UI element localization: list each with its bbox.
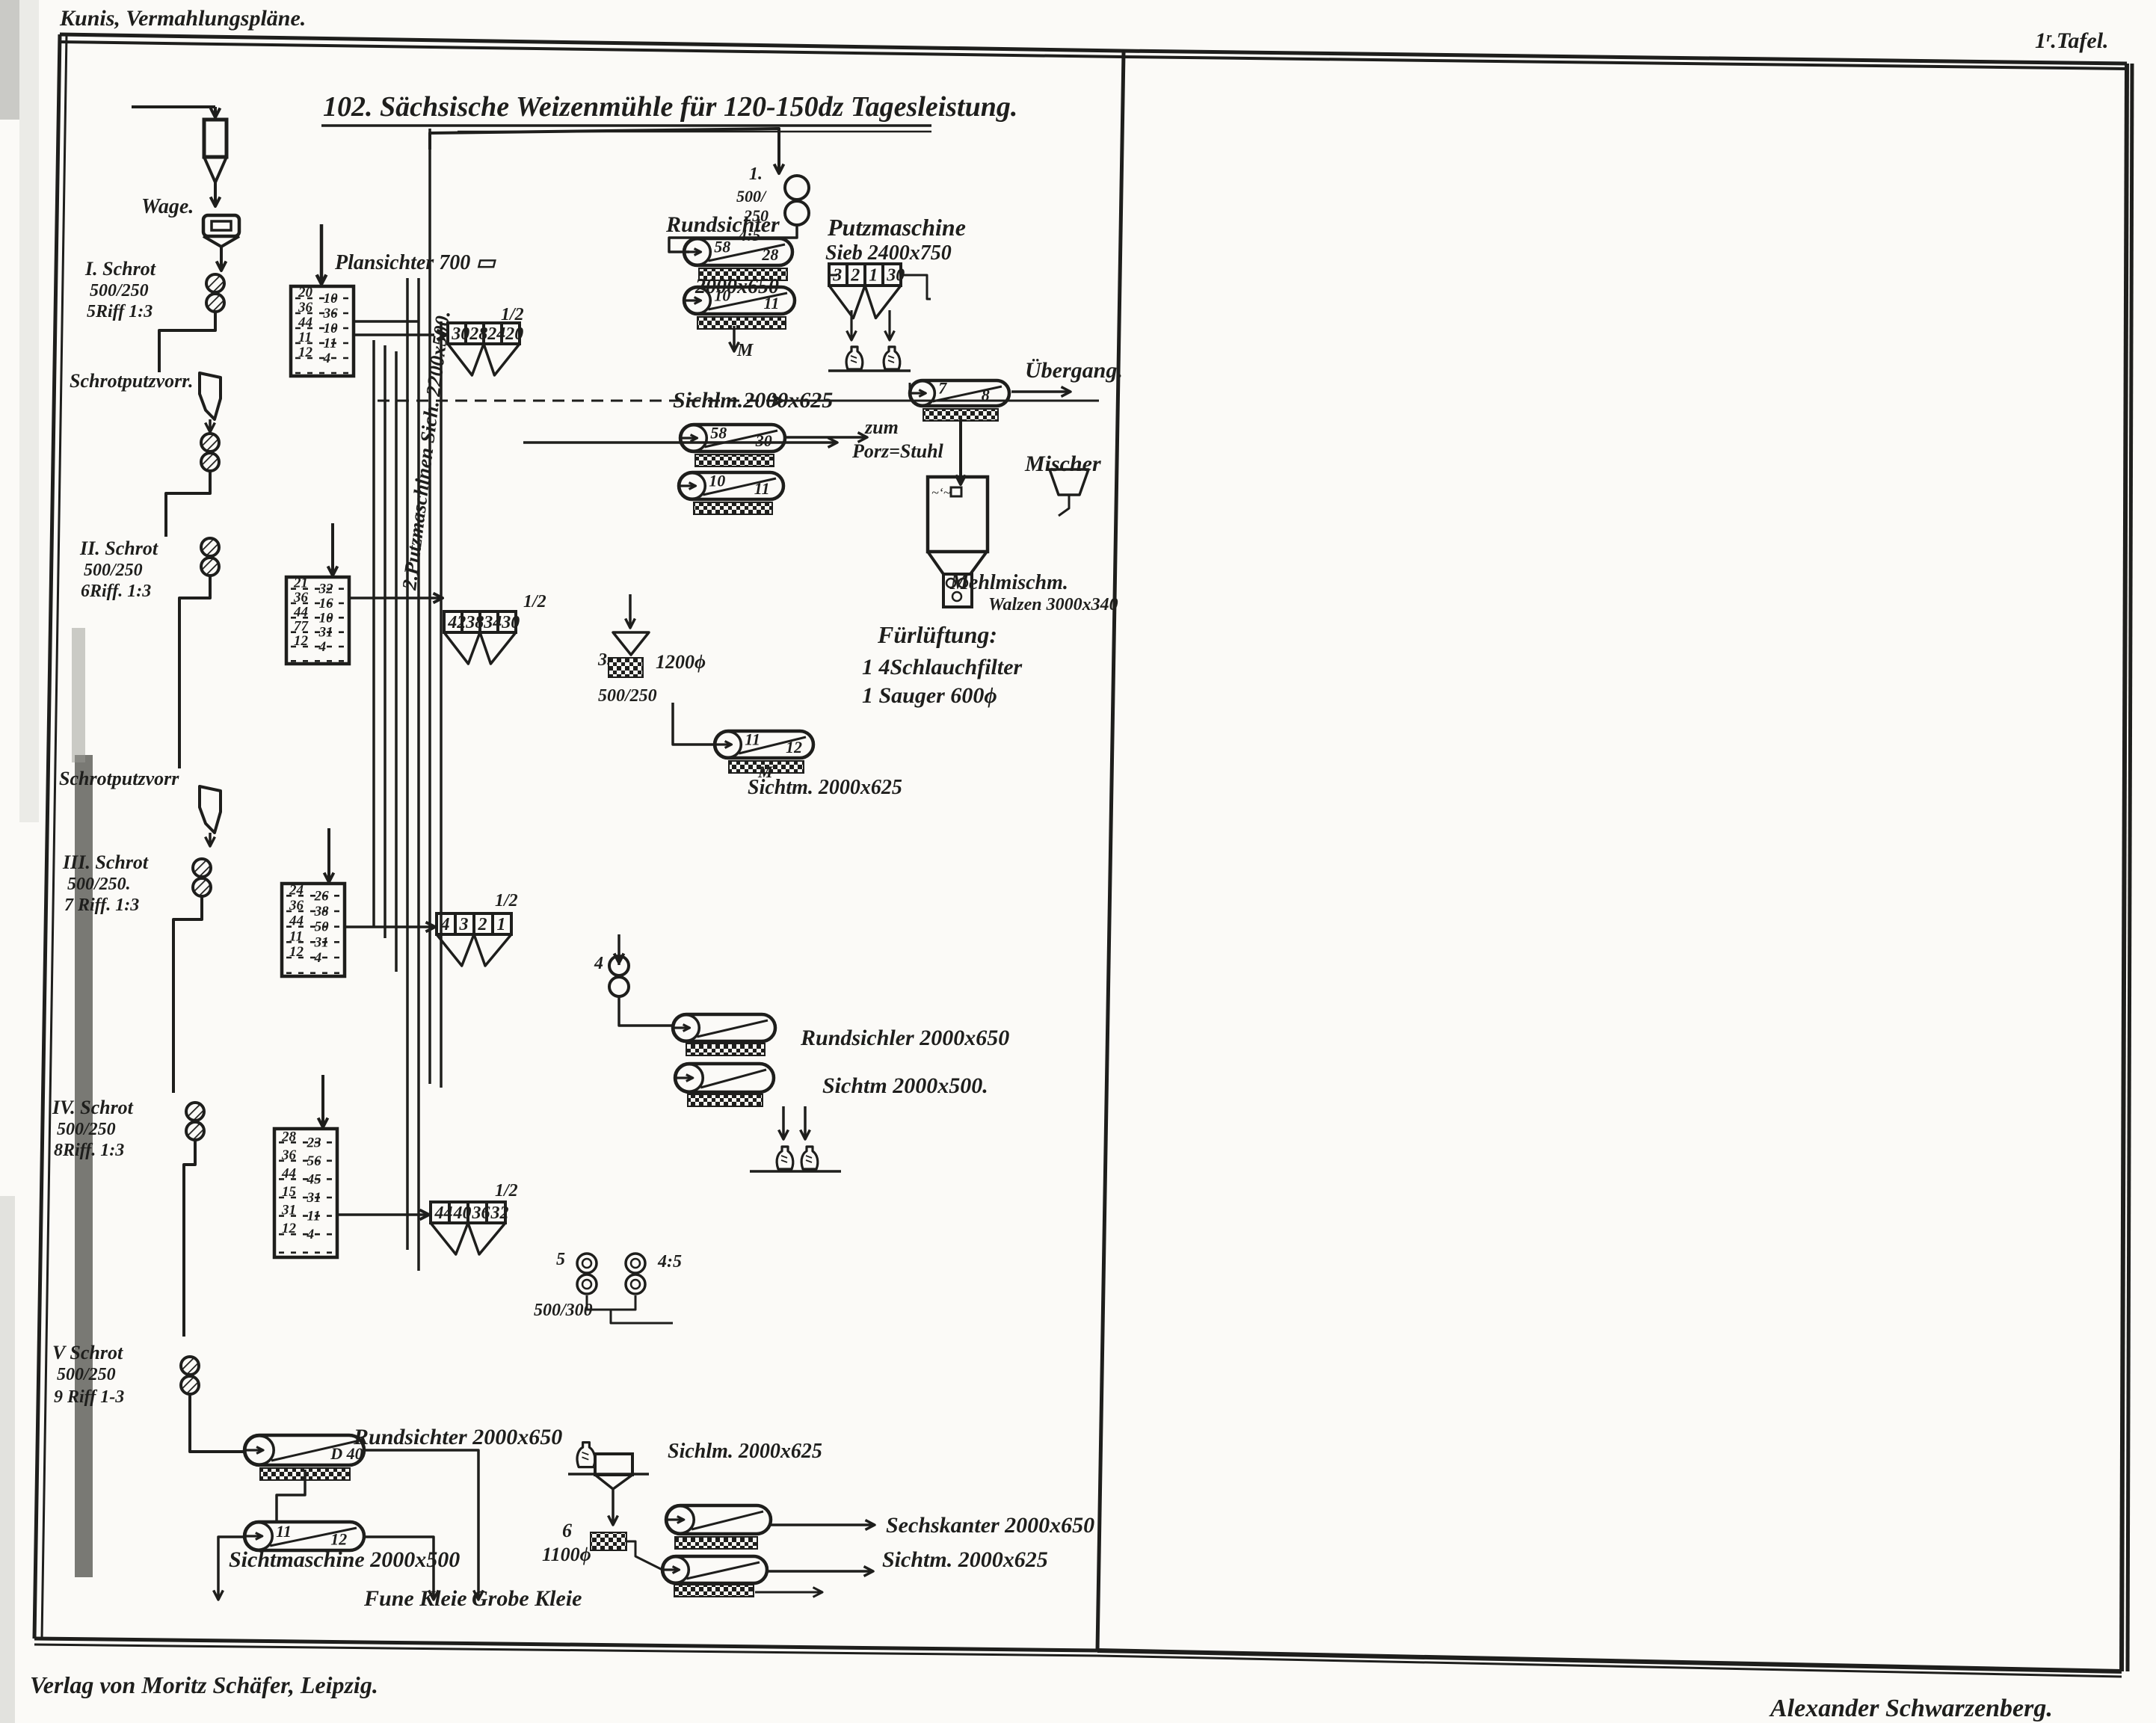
svg-text:Sichtm. 2000x625: Sichtm. 2000x625 [882,1547,1048,1572]
svg-text:12: 12 [786,738,802,756]
svg-text:10: 10 [709,472,725,490]
svg-text:Grobe Kleie: Grobe Kleie [472,1586,582,1611]
svg-text:1/2: 1/2 [495,1181,518,1200]
svg-text:5: 5 [556,1250,565,1269]
svg-text:4: 4 [318,639,327,655]
svg-text:4:5: 4:5 [657,1252,682,1272]
svg-text:11: 11 [324,336,337,351]
svg-text:44: 44 [281,1165,296,1181]
svg-text:Plansichter 700 ▭: Plansichter 700 ▭ [334,251,496,274]
svg-text:36: 36 [293,590,309,605]
svg-text:1: 1 [497,915,506,934]
svg-text:30: 30 [755,431,772,450]
svg-text:Sechskanter 2000x650: Sechskanter 2000x650 [886,1513,1094,1538]
svg-text:500/250: 500/250 [57,1365,116,1384]
svg-text:4: 4 [323,351,331,366]
svg-text:4: 4 [307,1227,315,1242]
svg-text:IV. Schrot: IV. Schrot [52,1097,134,1118]
svg-text:8Riff. 1:3: 8Riff. 1:3 [54,1141,124,1160]
svg-text:500/300: 500/300 [534,1301,593,1320]
svg-text:20: 20 [505,324,523,344]
svg-text:4: 4 [314,950,322,966]
svg-text:1100ϕ: 1100ϕ [542,1544,591,1565]
svg-text:11: 11 [307,1209,321,1224]
svg-text:500/250: 500/250 [90,281,149,300]
svg-text:36: 36 [298,300,313,315]
svg-text:36: 36 [289,898,304,913]
svg-text:Walzen 3000x340: Walzen 3000x340 [988,595,1118,614]
svg-text:11: 11 [289,928,303,944]
svg-text:2: 2 [478,915,487,934]
svg-text:10: 10 [714,286,730,305]
svg-text:7 Riff. 1:3: 7 Riff. 1:3 [64,896,139,915]
svg-text:16: 16 [319,596,334,611]
svg-text:6: 6 [562,1520,572,1541]
svg-text:31: 31 [307,1190,321,1206]
svg-text:32: 32 [490,1203,509,1223]
svg-text:32: 32 [318,582,334,597]
svg-text:44: 44 [293,604,308,620]
svg-text:56: 56 [307,1153,322,1169]
svg-text:6Riff. 1:3: 6Riff. 1:3 [81,582,151,601]
svg-text:Rundsichter 2000x650: Rundsichter 2000x650 [353,1425,562,1449]
svg-text:Sieb 2400x750: Sieb 2400x750 [825,241,952,265]
svg-text:11: 11 [754,479,770,498]
svg-text:Sichtm 2000x500.: Sichtm 2000x500. [822,1073,988,1098]
svg-text:10: 10 [319,610,334,626]
svg-text:Alexander Schwarzenberg.: Alexander Schwarzenberg. [1769,1695,2053,1722]
svg-text:1ʳ.Tafel.: 1ʳ.Tafel. [2035,28,2109,53]
svg-text:Mischer: Mischer [1024,451,1101,476]
svg-text:Porz=Stuhl: Porz=Stuhl [851,440,944,462]
svg-text:45: 45 [307,1171,322,1187]
svg-text:12: 12 [289,944,304,960]
svg-text:1 4Schlauchfilter: 1 4Schlauchfilter [862,655,1023,679]
svg-text:28: 28 [761,245,778,264]
svg-text:12: 12 [282,1221,297,1236]
svg-text:11: 11 [764,294,780,312]
svg-text:Übergang.: Übergang. [1025,358,1123,383]
svg-text:77: 77 [294,619,309,635]
svg-text:102. Sächsische Weizenmühle fü: 102. Sächsische Weizenmühle für 120-150d… [323,91,1017,123]
svg-text:36: 36 [281,1147,297,1163]
svg-text:1/2: 1/2 [523,592,546,611]
svg-text:1/2: 1/2 [495,891,518,910]
svg-text:Schrotputzvorr: Schrotputzvorr [59,768,179,789]
svg-text:36: 36 [323,306,339,321]
svg-text:7: 7 [938,379,947,398]
svg-text:1: 1 [869,266,878,286]
svg-text:Fürlüftung:: Fürlüftung: [877,621,997,648]
svg-text:15: 15 [282,1184,297,1200]
svg-text:Mehlmischm.: Mehlmischm. [949,571,1068,594]
svg-text:Fune Kleie: Fune Kleie [363,1586,467,1611]
svg-text:38: 38 [314,904,330,919]
svg-text:11: 11 [298,330,312,345]
svg-text:30: 30 [501,613,520,632]
svg-text:2: 2 [850,266,860,286]
svg-text:Verlag von Moritz Schäfer, Lei: Verlag von Moritz Schäfer, Leipzig. [30,1671,378,1698]
svg-text:28: 28 [281,1129,297,1144]
svg-text:3: 3 [459,915,469,934]
svg-text:58: 58 [714,238,730,256]
svg-text:58: 58 [710,424,727,443]
svg-text:10: 10 [324,291,339,306]
svg-text:11: 11 [745,730,760,749]
svg-text:12: 12 [294,633,309,649]
svg-text:Sichlm. 2000x625: Sichlm. 2000x625 [668,1440,822,1463]
svg-text:31: 31 [314,934,329,950]
svg-text:I. Schrot: I. Schrot [84,258,156,280]
svg-text:III. Schrot: III. Schrot [62,851,149,873]
svg-text:Rundsichter: Rundsichter [665,212,780,237]
svg-text:12: 12 [298,345,313,360]
svg-text:500/250: 500/250 [84,561,143,580]
svg-text:500/250: 500/250 [598,686,657,706]
svg-text:II. Schrot: II. Schrot [79,537,158,559]
svg-text:44: 44 [298,315,312,330]
svg-text:Schrotputzvorr.: Schrotputzvorr. [70,370,193,392]
svg-text:10: 10 [324,321,339,336]
svg-text:Kunis, Vermahlungspläne.: Kunis, Vermahlungspläne. [59,6,306,31]
svg-text:20: 20 [298,285,313,300]
svg-text:4: 4 [594,954,603,973]
svg-text:zum: zum [864,416,899,438]
svg-text:M: M [736,341,754,360]
svg-text:500/250: 500/250 [57,1120,116,1139]
svg-text:44: 44 [289,913,304,929]
svg-text:V Schrot: V Schrot [52,1342,123,1363]
svg-text:50: 50 [315,919,330,935]
svg-text:24: 24 [289,882,304,898]
svg-text:23: 23 [307,1135,321,1150]
svg-text:31: 31 [318,625,333,641]
svg-text:1.: 1. [749,164,763,184]
svg-text:5Riff 1:3: 5Riff 1:3 [87,302,153,321]
svg-text:500/250.: 500/250. [67,875,131,894]
svg-text:Rundsichler 2000x650: Rundsichler 2000x650 [800,1026,1009,1050]
svg-text:21: 21 [293,576,308,591]
svg-text:11: 11 [276,1522,292,1541]
svg-text:12: 12 [330,1529,347,1548]
svg-text:31: 31 [281,1203,296,1218]
svg-text:500/: 500/ [736,187,767,206]
svg-text:9 Riff 1-3: 9 Riff 1-3 [54,1387,124,1407]
svg-text:Sichtmaschine 2000x500: Sichtmaschine 2000x500 [229,1547,460,1572]
svg-text:1 Sauger 600ϕ: 1 Sauger 600ϕ [862,683,997,708]
svg-text:Putzmaschine: Putzmaschine [827,214,966,241]
svg-text:Sichtm. 2000x625: Sichtm. 2000x625 [748,776,902,799]
svg-text:1200ϕ: 1200ϕ [656,651,706,673]
svg-text:~ʻ~: ~ʻ~ [931,485,951,500]
svg-text:Wage.: Wage. [141,195,194,218]
svg-text:26: 26 [314,888,330,904]
